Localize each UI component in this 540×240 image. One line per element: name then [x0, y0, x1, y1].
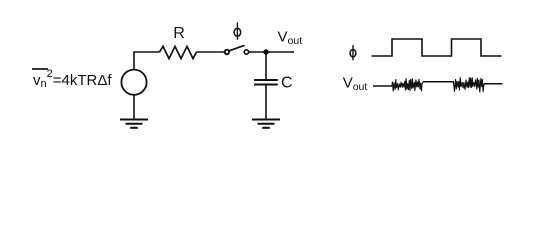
switch arm	[229, 45, 245, 51]
overline over vn	[32, 68, 48, 70]
wire: switch to output node	[249, 51, 294, 53]
Vout waveform flat segment 3	[484, 83, 503, 85]
svg-text:Vout: Vout	[278, 28, 303, 47]
svg-text:C: C	[281, 75, 293, 92]
capacitor C bottom plate	[254, 84, 278, 86]
svg-text:Vout: Vout	[343, 75, 368, 94]
Vout waveform flat segment 2	[423, 81, 453, 83]
wire: resistor to switch	[197, 51, 225, 53]
wire: node down to capacitor	[265, 52, 267, 80]
ground under source	[120, 120, 148, 128]
capacitor C top plate	[254, 79, 278, 81]
noise source circle	[121, 70, 146, 95]
node Vout junction dot	[263, 49, 268, 54]
label phi at switch	[234, 22, 241, 39]
wire: source top to resistor	[134, 52, 160, 70]
ground under capacitor	[252, 120, 280, 128]
wire: capacitor to ground	[265, 85, 267, 120]
switch left contact	[225, 50, 229, 54]
Vout noise burst 2	[453, 78, 484, 92]
phi clock waveform	[372, 39, 502, 56]
Vout waveform flat segment 1	[373, 85, 392, 87]
wire: source bottom to ground	[133, 95, 135, 120]
svg-text:vn2=4kTRΔf: vn2=4kTRΔf	[33, 68, 112, 90]
switch right contact	[244, 50, 248, 54]
svg-text:R: R	[173, 25, 185, 42]
Vout noise burst 1	[392, 79, 423, 91]
resistor R	[160, 46, 197, 58]
label phi at waveform	[350, 45, 356, 60]
